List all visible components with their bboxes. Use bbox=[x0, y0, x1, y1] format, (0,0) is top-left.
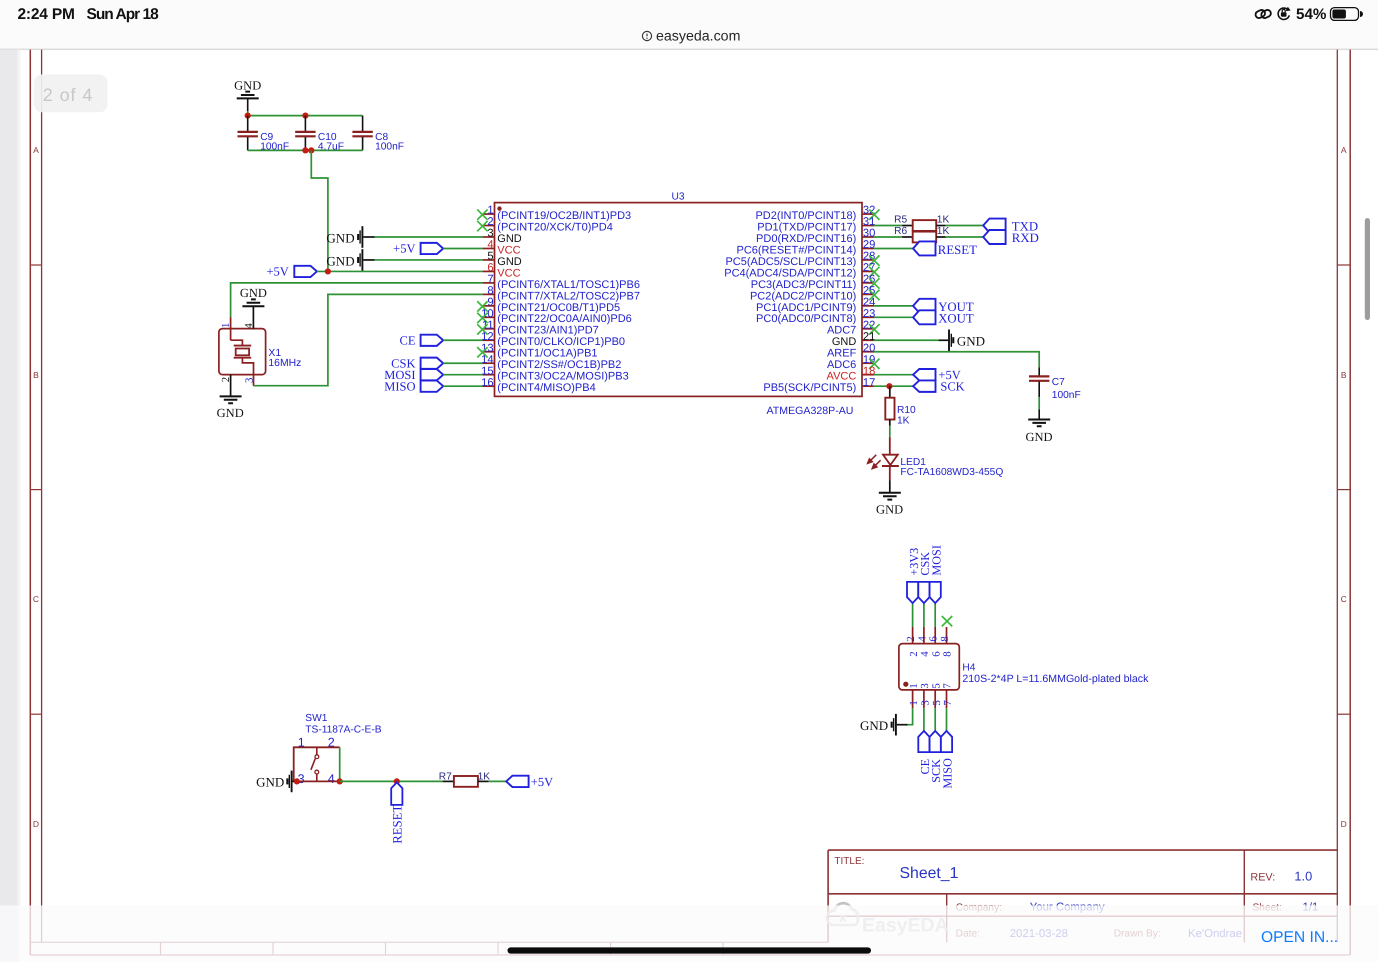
svg-text:A: A bbox=[1341, 145, 1347, 155]
wire pin4 bbox=[443, 247, 482, 249]
battery icon bbox=[1331, 8, 1359, 21]
svg-text:(PCINT21/OC0B/T1)PD5: (PCINT21/OC0B/T1)PD5 bbox=[497, 302, 620, 314]
svg-text:7: 7 bbox=[942, 683, 954, 689]
svg-text:4: 4 bbox=[328, 772, 335, 786]
no-connect X H4 pin 8 bbox=[942, 616, 952, 626]
U3 pin 27 stub bbox=[862, 270, 874, 272]
svg-text:1: 1 bbox=[908, 683, 920, 688]
svg-text:16: 16 bbox=[481, 377, 493, 389]
resistor R10 bbox=[889, 386, 891, 398]
svg-text:GND: GND bbox=[957, 334, 985, 349]
H4 pin 7 stub bbox=[946, 690, 948, 708]
junction SW1 pin3 bbox=[294, 778, 300, 784]
svg-text:D: D bbox=[1341, 819, 1347, 829]
wire H4 pin 3 to flag bbox=[923, 708, 925, 731]
U3 pin 2 stub bbox=[483, 225, 495, 227]
U3 pin 30 stub bbox=[862, 236, 874, 238]
svg-text:B: B bbox=[1341, 370, 1347, 380]
wire pin7 to crystal pin1 bbox=[231, 283, 483, 317]
frame outer right line bbox=[1349, 50, 1351, 955]
svg-text:2:24 PM: 2:24 PM bbox=[18, 6, 75, 23]
net flag CE bbox=[918, 731, 929, 752]
U3 pin 25 stub bbox=[862, 293, 874, 295]
svg-text:7: 7 bbox=[942, 700, 954, 706]
svg-text:+5V: +5V bbox=[531, 775, 553, 789]
svg-text:GND: GND bbox=[326, 253, 354, 268]
X1 pin 2 lead bbox=[230, 375, 232, 397]
U3 pin 14 stub bbox=[483, 362, 495, 364]
wire pin17 to SCK bbox=[874, 385, 913, 387]
U3 pin 4 stub bbox=[483, 247, 495, 249]
svg-text:18: 18 bbox=[863, 365, 875, 377]
U3 pin 16 stub bbox=[483, 385, 495, 387]
title block row3 line bbox=[828, 915, 1337, 917]
U3 pin 3 stub bbox=[483, 236, 495, 238]
wire pin5 bbox=[363, 259, 374, 261]
net flag XOUT bbox=[913, 310, 935, 324]
wire R6 to RXD bbox=[946, 236, 984, 238]
svg-text:3: 3 bbox=[920, 700, 932, 705]
U3 pin 12 stub bbox=[483, 339, 495, 341]
hotspot link icon bbox=[1254, 9, 1272, 19]
H4 pin 6 stub bbox=[934, 627, 936, 644]
wire MOSI to U3 bbox=[443, 374, 482, 376]
no-connect X pin 28 bbox=[869, 255, 879, 265]
svg-text:C: C bbox=[1341, 594, 1347, 604]
svg-text:TS-1187A-C-E-B: TS-1187A-C-E-B bbox=[305, 725, 381, 736]
svg-text:21: 21 bbox=[863, 331, 875, 343]
svg-text:6: 6 bbox=[928, 636, 940, 642]
svg-text:14: 14 bbox=[481, 354, 493, 366]
resistor R7 bbox=[443, 780, 454, 782]
frame inner left line bbox=[41, 50, 43, 943]
svg-text:GND: GND bbox=[876, 502, 903, 516]
U3 pin 19 stub bbox=[862, 362, 874, 364]
wire pin23 to XOUT bbox=[874, 316, 913, 318]
svg-text:R6: R6 bbox=[894, 226, 907, 237]
svg-text:1K: 1K bbox=[937, 226, 950, 237]
svg-text:4: 4 bbox=[487, 239, 493, 251]
junction bottom rail left bbox=[302, 147, 308, 153]
svg-text:VCC: VCC bbox=[497, 244, 520, 256]
svg-text:SW1: SW1 bbox=[305, 713, 327, 724]
svg-text:PC3(ADC3/PCINT11): PC3(ADC3/PCINT11) bbox=[751, 279, 857, 291]
svg-text:4: 4 bbox=[916, 636, 928, 642]
wire gnd to top rail bbox=[247, 111, 249, 116]
svg-text:PC4(ADC4/SDA/PCINT12): PC4(ADC4/SDA/PCINT12) bbox=[724, 267, 856, 279]
svg-text:PD2(INT0/PCINT18): PD2(INT0/PCINT18) bbox=[755, 210, 856, 222]
rotation lock icon bbox=[1278, 7, 1290, 19]
svg-text:+5V: +5V bbox=[393, 242, 415, 256]
site info icon bbox=[642, 31, 651, 40]
svg-text:8: 8 bbox=[939, 636, 951, 641]
svg-text:4: 4 bbox=[919, 651, 931, 657]
title block REV divider bbox=[1243, 850, 1245, 894]
svg-text:1: 1 bbox=[220, 323, 232, 328]
ground symbol below C7 bbox=[1028, 420, 1050, 427]
wire R10 to LED1 bbox=[889, 426, 891, 438]
svg-text:GND: GND bbox=[497, 233, 522, 245]
net flag SCK bbox=[930, 731, 941, 752]
X1 pin 3 lead bbox=[253, 375, 255, 386]
frame row divider 1 left bbox=[30, 489, 41, 491]
U3 pin 17 stub bbox=[862, 385, 874, 387]
svg-text:AVCC: AVCC bbox=[827, 371, 857, 383]
wire CSK to U3 bbox=[443, 362, 482, 364]
svg-text:ADC7: ADC7 bbox=[827, 325, 856, 337]
U3 pin 24 stub bbox=[862, 305, 874, 307]
wire R7 to +5V bbox=[489, 780, 507, 782]
svg-text:REV:: REV: bbox=[1250, 871, 1275, 883]
svg-text:SCK: SCK bbox=[940, 380, 964, 394]
svg-text:12: 12 bbox=[481, 331, 493, 343]
U3 pin 9 stub bbox=[483, 305, 495, 307]
svg-text:(PCINT23/AIN1)PD7: (PCINT23/AIN1)PD7 bbox=[497, 325, 598, 337]
no-connect X pin 26 bbox=[869, 278, 879, 288]
svg-text:54%: 54% bbox=[1296, 6, 1327, 23]
home indicator bbox=[508, 947, 872, 953]
svg-text:AREF: AREF bbox=[827, 348, 857, 360]
U3 pin 6 stub bbox=[483, 270, 495, 272]
svg-text:PD1(TXD/PCINT17): PD1(TXD/PCINT17) bbox=[757, 221, 856, 233]
svg-text:PC1(ADC1/PCINT9): PC1(ADC1/PCINT9) bbox=[756, 302, 856, 314]
svg-text:R7: R7 bbox=[439, 771, 452, 782]
title block row2 dividers bbox=[946, 894, 948, 943]
svg-text:ADC6: ADC6 bbox=[827, 359, 856, 371]
net flag SCK bbox=[913, 380, 935, 391]
no-connect X pin 19 bbox=[869, 359, 879, 369]
wire LED1 to ground bbox=[889, 481, 891, 493]
junction +5V net bbox=[325, 268, 331, 274]
wire pin6 bbox=[317, 270, 483, 272]
svg-text:GND: GND bbox=[326, 230, 354, 245]
no-connect X pin 10 bbox=[477, 313, 487, 323]
ground flag GND at pin21 bbox=[948, 329, 950, 351]
H4 pin 2 stub bbox=[912, 627, 914, 644]
svg-text:GND: GND bbox=[832, 336, 857, 348]
wire C7 to ground bbox=[1038, 397, 1040, 409]
svg-text:D: D bbox=[33, 819, 39, 829]
svg-text:16MHz: 16MHz bbox=[268, 358, 301, 369]
no-connect X pin 1 bbox=[477, 209, 487, 219]
X1 pin 1 lead bbox=[230, 317, 232, 340]
svg-text:RESET: RESET bbox=[938, 243, 977, 257]
svg-text:(PCINT1/OC1A)PB1: (PCINT1/OC1A)PB1 bbox=[497, 348, 597, 360]
frame outer left line bbox=[29, 50, 31, 955]
wire pin8 to crystal pin3 bbox=[254, 294, 483, 385]
svg-text:Sheet_1: Sheet_1 bbox=[900, 865, 959, 882]
H4 pin 1 stub bbox=[912, 690, 914, 708]
wire H4 pin 6 to flag bbox=[934, 603, 936, 627]
svg-text:XOUT: XOUT bbox=[938, 312, 974, 326]
LED1 emission arrows bbox=[868, 455, 881, 469]
svg-text:GND: GND bbox=[256, 775, 284, 790]
U3 pin 28 stub bbox=[862, 259, 874, 261]
U3 pin 21 stub bbox=[862, 339, 874, 341]
wire H4 pin 7 to flag bbox=[946, 708, 948, 731]
svg-text:5: 5 bbox=[930, 683, 942, 688]
wire H4 pin 2 to flag bbox=[912, 603, 914, 627]
ground symbol below LED1 bbox=[879, 493, 901, 500]
U3 pin 20 stub bbox=[862, 351, 874, 353]
junction SW1 pin4 bbox=[337, 778, 343, 784]
ground flag GND at H4 pin1 bbox=[895, 714, 897, 736]
svg-text:FC-TA1608WD3-455Q: FC-TA1608WD3-455Q bbox=[900, 467, 1003, 478]
net flag RESET bbox=[913, 241, 935, 255]
svg-text:PC5(ADC5/SCL/PCINT13): PC5(ADC5/SCL/PCINT13) bbox=[725, 256, 856, 268]
svg-text:GND: GND bbox=[1025, 430, 1052, 444]
svg-text:A: A bbox=[33, 145, 39, 155]
net flag TXD bbox=[983, 219, 1005, 233]
power flag +5V at R7 bbox=[506, 776, 528, 787]
transistor X1 16MHz crystal body bbox=[219, 329, 266, 375]
svg-text:(PCINT19/OC2B/INT1)PD3: (PCINT19/OC2B/INT1)PD3 bbox=[497, 210, 631, 222]
resistor R6 bbox=[874, 236, 902, 238]
capacitor C9 bbox=[247, 116, 249, 132]
svg-text:Sun Apr 18: Sun Apr 18 bbox=[87, 6, 160, 23]
svg-text:100nF: 100nF bbox=[375, 142, 404, 153]
svg-text:MOSI: MOSI bbox=[929, 545, 943, 575]
wire MISO to U3 bbox=[443, 385, 482, 387]
wire pin21 to GND flag bbox=[874, 339, 939, 341]
wire top rail bbox=[248, 115, 363, 117]
svg-text:1: 1 bbox=[487, 205, 493, 217]
H4 pin 8 stub bbox=[946, 627, 948, 644]
U3 pin 23 stub bbox=[862, 316, 874, 318]
svg-text:PB5(SCK/PCINT5): PB5(SCK/PCINT5) bbox=[763, 382, 856, 394]
wire CE to U3 bbox=[443, 339, 482, 341]
svg-text:(PCINT6/XTAL1/TOSC1)PB6: (PCINT6/XTAL1/TOSC1)PB6 bbox=[497, 279, 640, 291]
frame row divider 2 right bbox=[1337, 713, 1350, 715]
svg-text:PC2(ADC2/PCINT10): PC2(ADC2/PCINT10) bbox=[750, 290, 856, 302]
U3 pin 31 stub bbox=[862, 225, 874, 227]
svg-text:1: 1 bbox=[908, 700, 920, 705]
no-connect X pin 2 bbox=[477, 221, 487, 231]
frame bottom cells bbox=[30, 942, 1350, 955]
svg-text:(PCINT22/OC0A/AIN0)PD6: (PCINT22/OC0A/AIN0)PD6 bbox=[497, 313, 631, 325]
net flag +3V3 bbox=[907, 582, 918, 603]
no-connect X pin 22 bbox=[869, 324, 879, 334]
wire pin3 bbox=[363, 236, 374, 238]
wire bottom rail down to +5V net bbox=[311, 150, 328, 271]
H4 pin 4 stub bbox=[923, 627, 925, 644]
junction RESET net bbox=[394, 778, 400, 784]
svg-text:GND: GND bbox=[860, 718, 888, 733]
junction bottom rail right bbox=[308, 147, 314, 153]
net flag RXD bbox=[983, 230, 1005, 244]
wire pin24 to YOUT bbox=[874, 305, 913, 307]
wire H4 pin 5 to flag bbox=[934, 708, 936, 731]
header H4 body bbox=[899, 644, 959, 690]
junction pin17 net bbox=[886, 383, 892, 389]
capacitor C8 bbox=[362, 116, 364, 132]
X1 internal crystal symbol bbox=[231, 340, 243, 345]
power flag +5V at pin18 bbox=[874, 374, 913, 376]
svg-text:GND: GND bbox=[217, 406, 244, 420]
svg-text:2: 2 bbox=[905, 636, 917, 641]
svg-text:210S-2*4P L=11.6MMGold-plated: 210S-2*4P L=11.6MMGold-plated black bbox=[962, 673, 1149, 685]
wire pin20 AREF to C7 bbox=[874, 352, 1039, 368]
no-connect X pin 11 bbox=[477, 324, 487, 334]
frame row divider 0 left bbox=[30, 264, 41, 266]
U3 pin 26 stub bbox=[862, 282, 874, 284]
svg-text:PD0(RXD/PCINT16): PD0(RXD/PCINT16) bbox=[756, 233, 856, 245]
net flag MOSI bbox=[930, 582, 941, 603]
svg-text:VCC: VCC bbox=[497, 267, 520, 279]
svg-text:3: 3 bbox=[243, 378, 255, 383]
svg-text:1K: 1K bbox=[897, 415, 910, 426]
svg-text:23: 23 bbox=[863, 308, 875, 320]
svg-text:2: 2 bbox=[220, 377, 232, 382]
bottom translucent toolbar bbox=[0, 905, 1378, 962]
svg-text:20: 20 bbox=[863, 342, 875, 354]
svg-text:100nF: 100nF bbox=[1052, 390, 1081, 401]
svg-text:15: 15 bbox=[481, 365, 493, 377]
EasyEDA watermark bbox=[827, 903, 949, 936]
wire H4 pin1 to GND bbox=[908, 708, 913, 724]
svg-text:2 of 4: 2 of 4 bbox=[43, 85, 93, 105]
svg-text:(PCINT4/MISO)PB4: (PCINT4/MISO)PB4 bbox=[497, 382, 595, 394]
U3 pin 1 stub bbox=[483, 213, 495, 215]
status bar background bbox=[0, 0, 1378, 49]
net flag YOUT bbox=[913, 299, 935, 313]
page indicator 2 of 4 bbox=[34, 74, 108, 112]
U3 pin 10 stub bbox=[483, 316, 495, 318]
svg-text:ATMEGA328P-AU: ATMEGA328P-AU bbox=[767, 405, 854, 417]
svg-text:4: 4 bbox=[243, 323, 255, 329]
svg-text:9: 9 bbox=[487, 296, 493, 308]
no-connect X pin 13 bbox=[477, 347, 487, 357]
svg-text:1K: 1K bbox=[478, 771, 491, 782]
svg-text:easyeda.com: easyeda.com bbox=[656, 29, 740, 45]
svg-text:B: B bbox=[33, 370, 39, 380]
SW1 body bbox=[294, 747, 340, 781]
U3 pin1 marker bbox=[497, 206, 501, 210]
svg-text:1K: 1K bbox=[937, 214, 950, 225]
frame row divider 1 right bbox=[1337, 489, 1350, 491]
U3 pin 22 stub bbox=[862, 328, 874, 330]
wire bottom rail bbox=[248, 149, 363, 151]
svg-text:PC0(ADC0/PCINT8): PC0(ADC0/PCINT8) bbox=[756, 313, 856, 325]
H4 pin 3 stub bbox=[923, 690, 925, 708]
LED LED1 bbox=[889, 437, 891, 454]
ground symbol below X1 pin2 bbox=[220, 396, 242, 403]
svg-text:GND: GND bbox=[240, 286, 267, 300]
junction top rail at C10 bbox=[302, 113, 308, 119]
no-connect X pin 32 bbox=[869, 209, 879, 219]
svg-text:5: 5 bbox=[487, 251, 493, 263]
U3 pin 15 stub bbox=[483, 374, 495, 376]
svg-text:C: C bbox=[33, 594, 39, 604]
svg-text:X1: X1 bbox=[268, 348, 281, 359]
svg-text:(PCINT20/XCK/T0)PD4: (PCINT20/XCK/T0)PD4 bbox=[497, 221, 613, 233]
svg-text:1.0: 1.0 bbox=[1294, 869, 1312, 884]
svg-text:17: 17 bbox=[863, 377, 875, 389]
svg-text:+5V: +5V bbox=[266, 265, 288, 279]
capacitor C7 bbox=[1038, 367, 1040, 375]
svg-text:6: 6 bbox=[487, 262, 493, 274]
svg-text:3: 3 bbox=[919, 683, 931, 688]
resistor R5 bbox=[874, 225, 902, 227]
U3 pin 11 stub bbox=[483, 328, 495, 330]
svg-text:C7: C7 bbox=[1052, 377, 1065, 388]
svg-text:8: 8 bbox=[487, 285, 493, 297]
page edge strip bbox=[0, 50, 18, 962]
title block border bbox=[828, 850, 1337, 942]
H4 pin 5 stub bbox=[934, 690, 936, 708]
net flag RESET vertical bbox=[391, 782, 402, 805]
svg-text:8: 8 bbox=[942, 651, 954, 656]
capacitor C10 bbox=[304, 116, 306, 132]
svg-text:31: 31 bbox=[863, 216, 875, 228]
svg-text:7: 7 bbox=[487, 274, 493, 286]
frame row divider 2 left bbox=[30, 713, 41, 715]
svg-text:RESET: RESET bbox=[391, 805, 405, 844]
junction top rail at C9 bbox=[245, 113, 251, 119]
U3 pin 18 stub bbox=[862, 374, 874, 376]
wire pin29 to RESET bbox=[874, 247, 913, 249]
svg-text:30: 30 bbox=[863, 228, 875, 240]
svg-text:U3: U3 bbox=[672, 192, 685, 203]
net flag CSK bbox=[918, 582, 929, 603]
no-connect X pin 9 bbox=[477, 301, 487, 311]
no-connect X pin 25 bbox=[869, 290, 879, 300]
svg-text:OPEN IN...: OPEN IN... bbox=[1261, 929, 1338, 946]
svg-text:RXD: RXD bbox=[1012, 231, 1039, 245]
U3 pin 7 stub bbox=[483, 282, 495, 284]
op-amp U3 outline (ATMEGA328P-AU) bbox=[495, 203, 863, 397]
U3 pin 5 stub bbox=[483, 259, 495, 261]
no-connect X pin 27 bbox=[869, 267, 879, 277]
wire R5 to TXD bbox=[946, 225, 984, 227]
svg-text:GND: GND bbox=[497, 256, 522, 268]
svg-text:GND: GND bbox=[234, 79, 261, 93]
net flag MISO bbox=[941, 731, 952, 752]
frame inner right line bbox=[1336, 50, 1338, 943]
svg-text:CE: CE bbox=[400, 333, 416, 347]
svg-text:R10: R10 bbox=[897, 405, 916, 416]
svg-text:(PCINT2/SS#/OC1B)PB2: (PCINT2/SS#/OC1B)PB2 bbox=[497, 359, 621, 371]
H4 pin1 marker bbox=[903, 682, 908, 687]
svg-text:MISO: MISO bbox=[384, 379, 415, 393]
svg-text:R5: R5 bbox=[894, 215, 907, 226]
frame row divider 0 right bbox=[1337, 264, 1350, 266]
svg-text:(PCINT0/CLKO/ICP1)PB0: (PCINT0/CLKO/ICP1)PB0 bbox=[497, 336, 625, 348]
SW1 contacts bbox=[316, 747, 318, 755]
U3 pin 32 stub bbox=[862, 213, 874, 215]
U3 pin 29 stub bbox=[862, 247, 874, 249]
svg-text:MISO: MISO bbox=[941, 758, 955, 789]
svg-text:(PCINT7/XTAL2/TOSC2)PB7: (PCINT7/XTAL2/TOSC2)PB7 bbox=[497, 290, 640, 302]
svg-text:5: 5 bbox=[931, 700, 943, 705]
wire SW1 pin4 to R7 bbox=[340, 780, 443, 782]
svg-text:24: 24 bbox=[863, 296, 875, 308]
wire H4 pin 4 to flag bbox=[923, 603, 925, 627]
svg-text:3: 3 bbox=[487, 228, 493, 240]
U3 pin 13 stub bbox=[483, 351, 495, 353]
svg-text:PC6(RESET#/PCINT14): PC6(RESET#/PCINT14) bbox=[736, 244, 856, 256]
wire SW1 pin2 to pin4 bbox=[339, 747, 341, 781]
svg-text:6: 6 bbox=[930, 651, 942, 657]
U3 pin 8 stub bbox=[483, 293, 495, 295]
svg-text:TITLE:: TITLE: bbox=[834, 856, 864, 867]
status bar divider bbox=[0, 49, 1378, 50]
svg-text:2: 2 bbox=[487, 216, 493, 228]
svg-text:2: 2 bbox=[908, 651, 920, 656]
scrollbar bbox=[1365, 218, 1370, 320]
svg-text:(PCINT3/OC2A/MOSI)PB3: (PCINT3/OC2A/MOSI)PB3 bbox=[497, 371, 628, 383]
svg-text:29: 29 bbox=[863, 239, 875, 251]
